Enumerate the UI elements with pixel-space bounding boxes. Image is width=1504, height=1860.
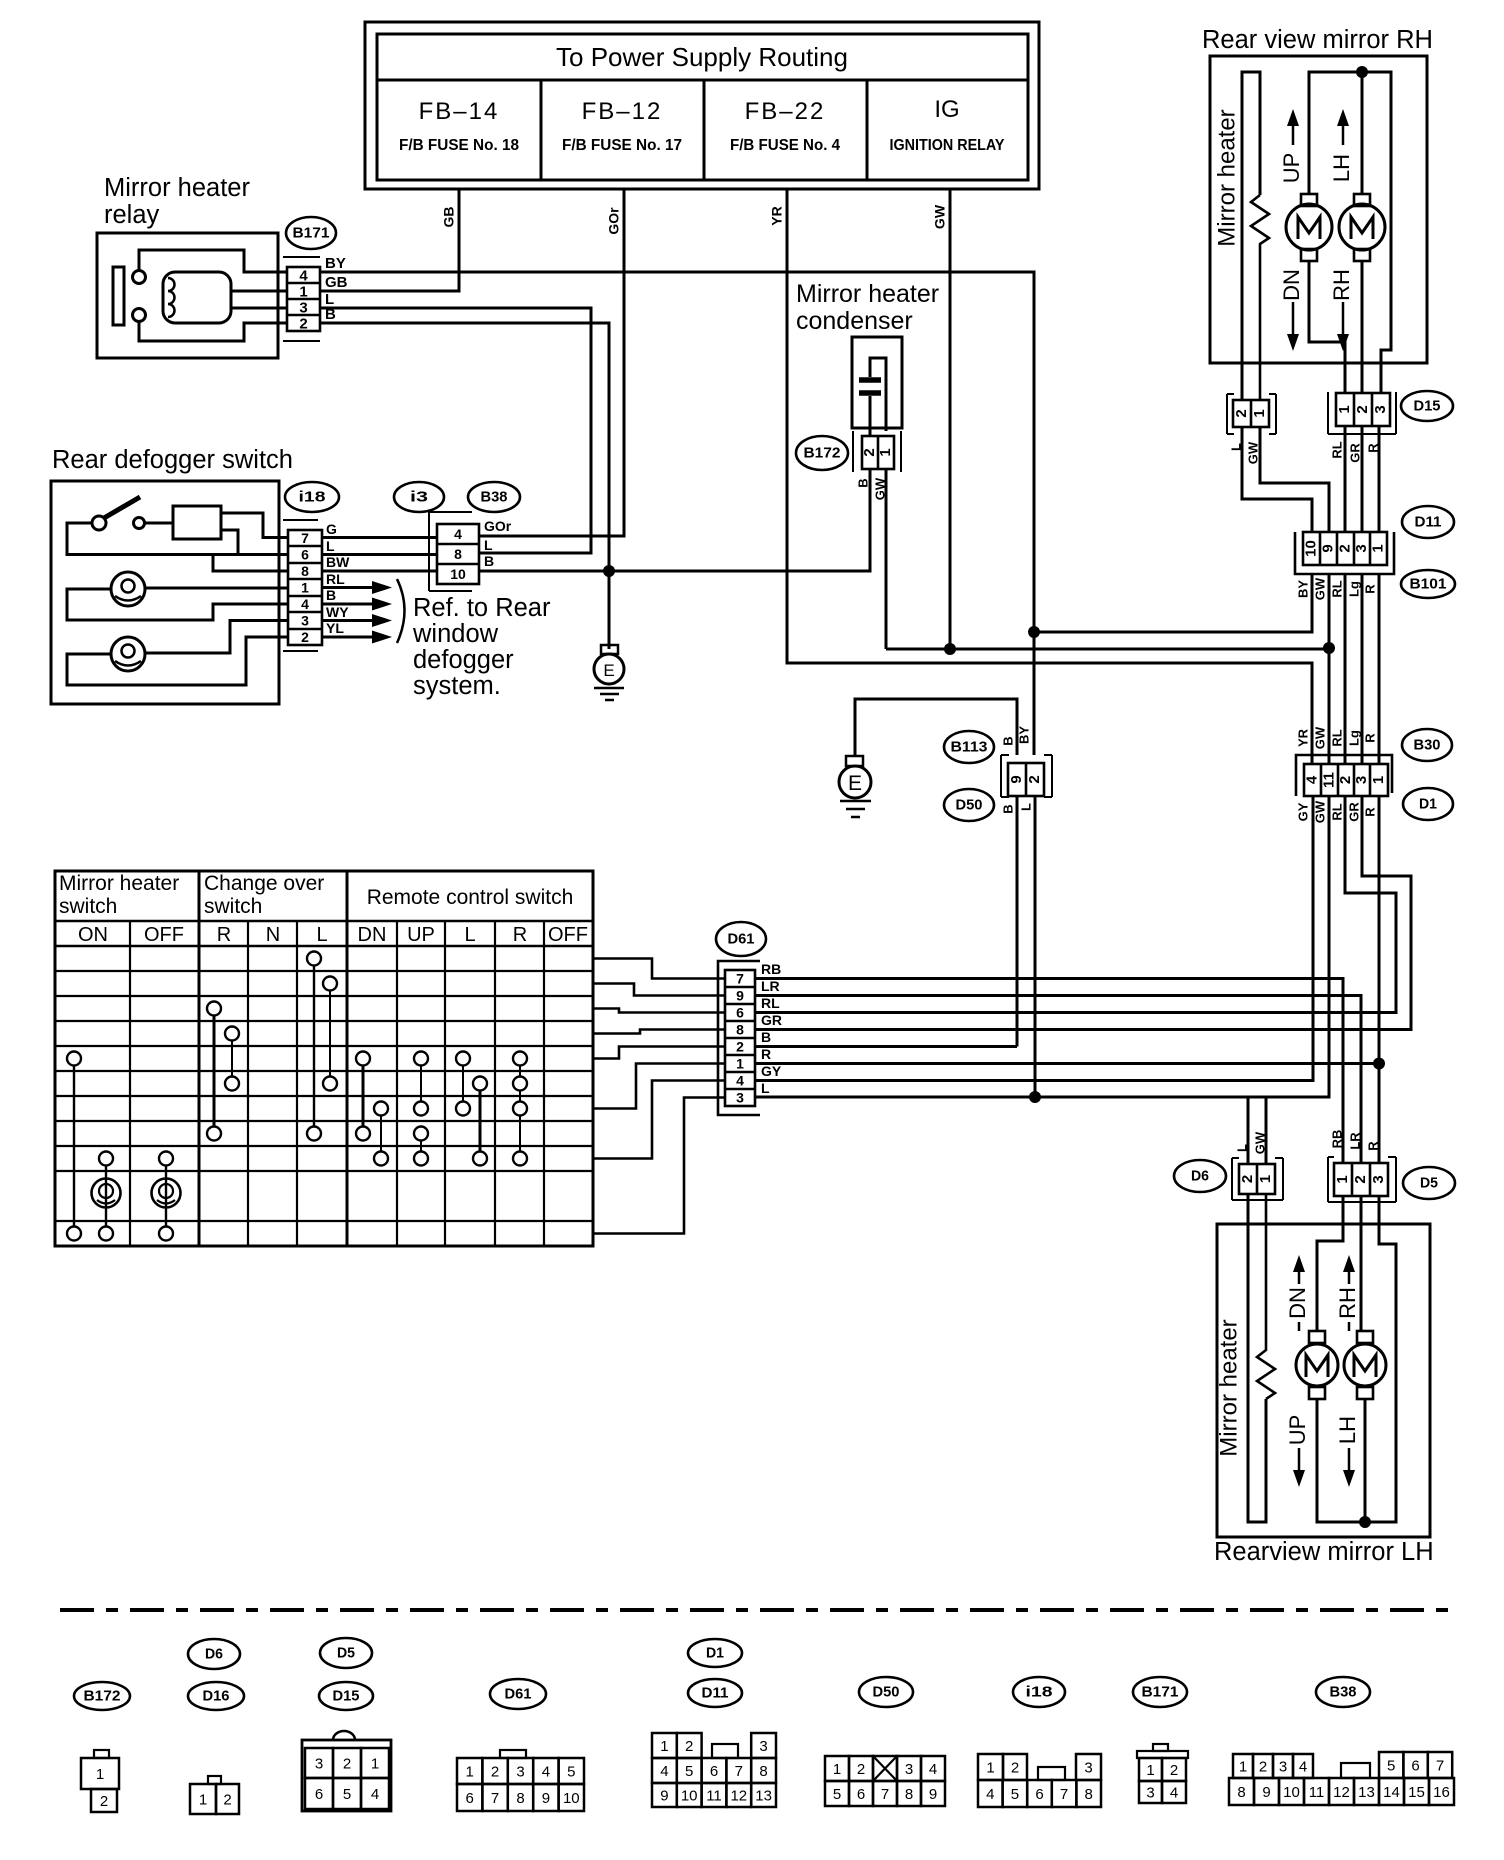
svg-text:1: 1 <box>1334 1175 1351 1183</box>
wire RL below B30 jog <box>755 796 1396 1013</box>
svg-text:B38: B38 <box>1330 1683 1357 1700</box>
svg-text:GR: GR <box>761 1012 782 1028</box>
svg-text:8: 8 <box>736 1022 744 1038</box>
svg-text:1: 1 <box>96 1766 104 1783</box>
svg-text:5: 5 <box>343 1786 351 1803</box>
svg-text:i3: i3 <box>410 488 428 505</box>
svg-text:Mirror heater: Mirror heater <box>1215 1319 1242 1456</box>
wires i18 to B38 <box>322 538 437 572</box>
connector B113 ellipse <box>944 731 994 763</box>
svg-text:2: 2 <box>223 1791 231 1808</box>
connector D61 pins 7/9/6/8/2/1/4/3 <box>718 961 760 1115</box>
svg-text:7: 7 <box>881 1786 889 1803</box>
svg-text:1: 1 <box>1336 405 1353 413</box>
svg-text:UP: UP <box>1285 1415 1310 1446</box>
svg-text:D6: D6 <box>1191 1167 1209 1184</box>
dashed separator line <box>60 1608 1448 1612</box>
contact L4 <box>307 1127 321 1141</box>
svg-text:4: 4 <box>929 1761 937 1778</box>
svg-text:L: L <box>1018 803 1033 811</box>
svg-text:R: R <box>217 924 231 946</box>
svg-text:B171: B171 <box>293 224 330 241</box>
ref arrows to rear window defogger <box>322 586 372 589</box>
svg-text:2: 2 <box>736 1039 744 1055</box>
svg-text:RL: RL <box>1329 803 1344 820</box>
LH arrow <box>1337 109 1349 126</box>
svg-text:1: 1 <box>877 448 894 456</box>
contact R1 <box>207 1002 221 1016</box>
svg-text:WY: WY <box>326 604 349 620</box>
wire B below D50 <box>1016 797 1019 1047</box>
contact L1 <box>307 952 321 966</box>
svg-text:2: 2 <box>685 1738 693 1755</box>
svg-text:7: 7 <box>736 971 744 987</box>
gallery connector D15 <box>333 1731 355 1740</box>
LH motor wiring top <box>1317 1196 1343 1331</box>
svg-text:16: 16 <box>1433 1784 1450 1801</box>
svg-text:9: 9 <box>929 1786 937 1803</box>
relay contact bar <box>113 267 124 325</box>
svg-text:IGNITION RELAY: IGNITION RELAY <box>890 137 1005 154</box>
wire R below B30 to D5 <box>1378 796 1381 1163</box>
contact ON c <box>99 1152 113 1166</box>
svg-text:2: 2 <box>100 1793 108 1810</box>
svg-text:7: 7 <box>491 1790 499 1807</box>
svg-text:11: 11 <box>1320 772 1337 788</box>
connector D5 ellipse <box>1403 1167 1455 1199</box>
svg-text:2: 2 <box>343 1755 351 1772</box>
svg-text:B: B <box>484 553 494 569</box>
wire R D61 to junction <box>755 1062 1379 1065</box>
svg-text:YR: YR <box>769 206 785 225</box>
svg-text:7: 7 <box>1436 1757 1444 1774</box>
svg-text:window: window <box>412 620 499 648</box>
contact UP4 <box>414 1152 428 1166</box>
connector B171 ellipse <box>286 217 336 249</box>
svg-text:1: 1 <box>1251 409 1268 417</box>
motor RH-1 <box>1301 194 1317 206</box>
svg-text:F/B FUSE No. 4: F/B FUSE No. 4 <box>730 137 840 154</box>
svg-text:1: 1 <box>299 283 307 300</box>
svg-text:BY: BY <box>1016 726 1031 744</box>
svg-text:4: 4 <box>454 526 462 542</box>
contact L3 <box>323 1077 337 1091</box>
rearview mirror LH box <box>1217 1224 1430 1537</box>
svg-text:LH: LH <box>1335 1416 1360 1444</box>
ground E1 <box>601 645 618 654</box>
gallery connector B172 <box>94 1750 109 1758</box>
svg-text:13: 13 <box>755 1787 772 1804</box>
svg-text:Rear defogger switch: Rear defogger switch <box>52 446 293 474</box>
contact Rr2 <box>513 1077 527 1091</box>
connector D6 pins 2/1 <box>1232 1158 1283 1200</box>
svg-text:3: 3 <box>301 613 309 629</box>
svg-text:Remote control switch: Remote control switch <box>367 886 574 909</box>
wire L below D50 <box>1034 797 1037 1097</box>
svg-text:4: 4 <box>1170 1784 1178 1801</box>
svg-text:GOr: GOr <box>606 207 622 235</box>
svg-text:4: 4 <box>986 1786 994 1803</box>
UP arrow <box>1287 109 1299 126</box>
switch wiring <box>67 523 288 555</box>
svg-text:D16: D16 <box>203 1687 230 1704</box>
svg-text:FB–22: FB–22 <box>745 98 826 125</box>
svg-text:To Power Supply Routing: To Power Supply Routing <box>556 42 848 72</box>
wire BY relay to B113 <box>320 272 1034 755</box>
svg-text:13: 13 <box>1358 1784 1375 1801</box>
gallery connector D61 <box>500 1750 526 1758</box>
wire GY below B30 <box>755 796 1313 1081</box>
svg-text:RB: RB <box>761 961 781 977</box>
svg-text:1: 1 <box>1257 1175 1274 1183</box>
svg-text:RL: RL <box>1329 441 1344 458</box>
svg-text:D50: D50 <box>956 796 983 813</box>
svg-text:OFF: OFF <box>144 924 184 946</box>
svg-text:system.: system. <box>413 672 501 700</box>
connector B38 ellipse <box>468 482 520 512</box>
svg-text:8: 8 <box>454 546 462 562</box>
wire RB D61 to D5 <box>755 979 1343 1164</box>
contact DN1 <box>356 1052 370 1066</box>
svg-text:5: 5 <box>1011 1786 1019 1803</box>
svg-text:8: 8 <box>759 1763 767 1780</box>
svg-text:9: 9 <box>736 988 744 1004</box>
svg-text:4: 4 <box>301 596 309 612</box>
mirror heater element RH <box>1242 72 1260 400</box>
defogger timer box <box>173 506 221 539</box>
svg-text:2: 2 <box>1259 1758 1267 1775</box>
RH motor wiring top <box>1309 72 1391 393</box>
contact DN2 <box>374 1102 388 1116</box>
svg-text:1: 1 <box>199 1791 207 1808</box>
svg-text:B172: B172 <box>804 444 841 461</box>
svg-text:N: N <box>266 924 280 946</box>
gallery connector B38 <box>1233 1754 1253 1778</box>
svg-text:1: 1 <box>1239 1758 1247 1775</box>
connector D15 pins 1/2/3 <box>1328 392 1396 434</box>
svg-text:E: E <box>603 661 614 680</box>
svg-text:9: 9 <box>660 1787 668 1804</box>
svg-text:Rear view mirror RH: Rear view mirror RH <box>1202 26 1433 54</box>
svg-text:9: 9 <box>1008 775 1025 783</box>
defogger lamp 2 <box>111 637 145 671</box>
svg-text:1: 1 <box>371 1755 379 1772</box>
svg-text:B171: B171 <box>1142 1683 1179 1700</box>
power supply routing box <box>365 22 1039 189</box>
motor RH-2 <box>1354 194 1370 206</box>
svg-text:R: R <box>1362 807 1377 817</box>
D1 ellipse <box>1403 788 1453 820</box>
svg-text:defogger: defogger <box>413 646 514 674</box>
contact ON a <box>67 1052 81 1066</box>
svg-text:1: 1 <box>833 1761 841 1778</box>
svg-text:GW: GW <box>1312 800 1327 823</box>
svg-text:D15: D15 <box>1414 397 1441 414</box>
svg-text:8: 8 <box>905 1786 913 1803</box>
gallery connector B171 <box>1153 1744 1168 1751</box>
svg-text:Change over: Change over <box>204 872 324 895</box>
svg-text:6: 6 <box>736 1005 744 1021</box>
svg-text:8: 8 <box>1085 1786 1093 1803</box>
gallery connector i18 <box>978 1754 1003 1780</box>
svg-text:2: 2 <box>301 629 309 645</box>
wire L relay to B38 <box>320 308 591 553</box>
svg-text:7: 7 <box>1060 1786 1068 1803</box>
svg-text:GY: GY <box>1295 802 1310 821</box>
svg-text:GOr: GOr <box>484 518 512 534</box>
svg-text:1: 1 <box>1369 544 1386 552</box>
svg-text:2: 2 <box>861 448 878 456</box>
svg-text:2: 2 <box>1336 544 1353 552</box>
svg-text:LR: LR <box>1347 1132 1362 1150</box>
wire GR below B30 jog <box>755 796 1411 1030</box>
svg-text:F/B FUSE No. 17: F/B FUSE No. 17 <box>562 137 682 154</box>
connector B30/D1 pins 4/11/2/3/1 <box>1296 755 1392 796</box>
contact Rr4 <box>513 1152 527 1166</box>
svg-text:1: 1 <box>1370 776 1387 784</box>
ground E2 <box>855 699 1017 756</box>
svg-text:2: 2 <box>1239 1175 1256 1183</box>
contact ON d <box>99 1227 113 1241</box>
svg-text:B30: B30 <box>1414 736 1441 753</box>
contact ON b <box>67 1227 81 1241</box>
svg-text:1: 1 <box>660 1738 668 1755</box>
wire GW condenser to GW junction <box>885 469 888 649</box>
wire GW to D11 <box>1260 427 1329 532</box>
svg-text:Mirror heater: Mirror heater <box>59 872 179 895</box>
svg-text:Mirror heater: Mirror heater <box>1213 109 1240 246</box>
svg-text:RL: RL <box>1329 580 1344 597</box>
svg-text:1: 1 <box>986 1759 994 1776</box>
svg-text:3: 3 <box>299 299 307 316</box>
svg-text:L: L <box>1234 1144 1249 1152</box>
svg-text:B101: B101 <box>1410 575 1447 592</box>
svg-text:Ref. to Rear: Ref. to Rear <box>413 594 551 622</box>
connector D6 ellipse <box>1174 1160 1226 1192</box>
svg-text:R: R <box>761 1046 771 1062</box>
svg-text:2: 2 <box>1011 1759 1019 1776</box>
wire L D61 to D6 <box>755 1096 1266 1099</box>
contact Lr1 <box>456 1052 470 1066</box>
svg-text:3: 3 <box>1146 1784 1154 1801</box>
DN arrow LH <box>1293 1255 1305 1272</box>
gallery connector D16 <box>208 1776 221 1784</box>
svg-text:2: 2 <box>857 1761 865 1778</box>
svg-text:RH: RH <box>1335 1287 1360 1319</box>
svg-text:YL: YL <box>326 620 344 636</box>
contact DN3 <box>356 1127 370 1141</box>
svg-text:2: 2 <box>299 315 307 332</box>
switch contacts <box>92 516 106 530</box>
svg-text:FB–12: FB–12 <box>582 98 663 125</box>
svg-text:L: L <box>316 924 327 946</box>
svg-text:7: 7 <box>735 1763 743 1780</box>
wire GOr from FB-12 <box>479 189 624 536</box>
RH motor wiring bottom <box>1309 261 1345 393</box>
capacitor <box>859 377 881 383</box>
svg-text:GW: GW <box>1312 577 1327 600</box>
svg-text:DN: DN <box>1285 1287 1310 1319</box>
svg-text:relay: relay <box>104 201 160 229</box>
svg-text:D15: D15 <box>333 1687 360 1704</box>
svg-text:BY: BY <box>1295 580 1310 598</box>
svg-text:3: 3 <box>1370 1175 1387 1183</box>
svg-text:D5: D5 <box>337 1644 355 1661</box>
svg-text:BY: BY <box>325 255 346 272</box>
svg-text:1: 1 <box>736 1056 744 1072</box>
contact Rr1 <box>513 1052 527 1066</box>
relay coil <box>163 272 231 323</box>
connector B172 ellipse <box>796 436 848 470</box>
svg-text:11: 11 <box>1309 1784 1325 1801</box>
connector D5 pins 1/2/3 <box>1328 1157 1396 1202</box>
svg-text:5: 5 <box>833 1786 841 1803</box>
svg-text:Rearview mirror LH: Rearview mirror LH <box>1214 1538 1434 1566</box>
svg-text:RL: RL <box>1329 729 1344 746</box>
svg-text:E: E <box>848 772 862 795</box>
svg-text:11: 11 <box>706 1787 722 1804</box>
svg-text:3: 3 <box>905 1761 913 1778</box>
trunk wires D11 to B30 <box>1328 574 1331 764</box>
svg-text:B172: B172 <box>84 1687 121 1704</box>
B30 ellipse <box>1402 729 1452 761</box>
svg-text:GB: GB <box>441 207 457 228</box>
svg-text:1: 1 <box>466 1763 474 1780</box>
svg-text:IG: IG <box>934 96 959 123</box>
connector B172 pins 2/1 <box>853 431 901 472</box>
svg-text:switch: switch <box>204 895 262 918</box>
gallery ellipses <box>74 1682 130 1710</box>
connector D15 ellipse <box>1401 391 1453 421</box>
svg-text:4: 4 <box>542 1763 550 1780</box>
svg-text:OFF: OFF <box>548 924 588 946</box>
svg-text:condenser: condenser <box>796 307 913 335</box>
svg-text:G: G <box>326 521 337 537</box>
svg-text:D1: D1 <box>1419 795 1437 812</box>
svg-text:D61: D61 <box>505 1685 532 1702</box>
svg-text:10: 10 <box>450 566 466 582</box>
wire YR from FB-22 <box>787 189 1312 764</box>
svg-text:10: 10 <box>1283 1784 1300 1801</box>
svg-text:3: 3 <box>1279 1758 1287 1775</box>
contact Lr3 <box>456 1102 470 1116</box>
svg-text:4: 4 <box>1303 775 1320 784</box>
wire B relay to ground junction <box>320 323 609 649</box>
contact Rr3 <box>513 1102 527 1116</box>
contact OFF a <box>159 1152 173 1166</box>
connector i18 pins 7/6/8/1/4/3/2 <box>283 520 318 651</box>
relay connector pins 4/1/3/2 <box>283 257 320 341</box>
svg-text:L: L <box>761 1080 770 1096</box>
svg-text:L: L <box>484 537 493 553</box>
svg-text:R: R <box>1362 584 1377 594</box>
svg-text:D1: D1 <box>706 1644 724 1661</box>
svg-text:3: 3 <box>1353 544 1370 552</box>
indicator lamp OFF <box>152 1179 181 1208</box>
contact UP1 <box>414 1052 428 1066</box>
contact link lines <box>73 1066 75 1227</box>
svg-text:GW: GW <box>932 204 948 229</box>
svg-text:GW: GW <box>1252 1131 1267 1154</box>
svg-text:switch: switch <box>59 895 117 918</box>
svg-text:B: B <box>1000 804 1015 813</box>
svg-text:L: L <box>326 538 335 554</box>
svg-text:RL: RL <box>761 995 780 1011</box>
wire B D61 to D50 <box>755 1045 1017 1048</box>
defogger lamp 1 <box>111 572 145 606</box>
svg-text:3: 3 <box>1084 1759 1092 1776</box>
contact Lr4 <box>473 1152 487 1166</box>
svg-text:1: 1 <box>301 580 309 596</box>
contact OFF b <box>159 1227 173 1241</box>
svg-text:Mirror heater: Mirror heater <box>104 174 250 202</box>
svg-text:LH: LH <box>1329 154 1354 182</box>
svg-text:Lg: Lg <box>1346 581 1361 597</box>
svg-text:9: 9 <box>1262 1784 1270 1801</box>
svg-text:5: 5 <box>567 1763 575 1780</box>
RH heater connector pins 2/1 <box>1227 394 1276 434</box>
indicator lamp ON <box>92 1179 121 1208</box>
contact R4 <box>207 1127 221 1141</box>
svg-text:RH: RH <box>1329 269 1354 301</box>
connector D61 ellipse <box>716 922 766 956</box>
svg-text:B: B <box>326 587 336 603</box>
svg-text:R: R <box>513 924 527 946</box>
svg-text:4: 4 <box>1299 1758 1307 1775</box>
wire GW from IG <box>949 189 952 649</box>
svg-text:R: R <box>1362 733 1377 743</box>
svg-text:B: B <box>761 1029 771 1045</box>
svg-text:D5: D5 <box>1420 1174 1438 1191</box>
svg-text:3: 3 <box>736 1090 744 1106</box>
svg-text:9: 9 <box>542 1790 550 1807</box>
svg-text:F/B FUSE No. 18: F/B FUSE No. 18 <box>399 137 519 154</box>
svg-text:3: 3 <box>315 1755 323 1772</box>
motor LH-1 <box>1309 1331 1325 1343</box>
wires RL GR R to D11 <box>1345 426 1379 532</box>
svg-text:UP: UP <box>1279 153 1304 184</box>
svg-text:5: 5 <box>685 1763 693 1780</box>
svg-text:i18: i18 <box>299 488 326 505</box>
contact L2 <box>323 977 337 991</box>
svg-text:D6: D6 <box>205 1645 223 1662</box>
svg-text:2: 2 <box>491 1763 499 1780</box>
svg-text:GY: GY <box>761 1063 782 1079</box>
svg-text:2: 2 <box>1337 776 1354 784</box>
svg-text:10: 10 <box>563 1790 580 1807</box>
wire L to D11 <box>1242 427 1312 532</box>
svg-text:15: 15 <box>1408 1784 1425 1801</box>
svg-text:14: 14 <box>1383 1784 1400 1801</box>
connector i18 ellipse <box>285 482 339 512</box>
svg-text:2: 2 <box>1354 405 1371 413</box>
connector i3 ellipse <box>394 482 444 512</box>
svg-text:D50: D50 <box>873 1683 900 1700</box>
wire B B38 to condenser <box>479 469 870 571</box>
D11 ellipse <box>1402 506 1454 538</box>
contact Lr2 <box>473 1077 487 1091</box>
svg-text:D11: D11 <box>1415 513 1442 530</box>
svg-text:7: 7 <box>301 530 309 546</box>
svg-text:DN: DN <box>358 924 387 946</box>
svg-text:1: 1 <box>1146 1762 1154 1779</box>
svg-text:2: 2 <box>1352 1175 1369 1183</box>
svg-text:GB: GB <box>325 274 348 291</box>
svg-text:6: 6 <box>301 547 309 563</box>
svg-text:8: 8 <box>516 1790 524 1807</box>
svg-text:UP: UP <box>407 924 435 946</box>
wire BY branch to D11 pin10 <box>1034 574 1312 632</box>
